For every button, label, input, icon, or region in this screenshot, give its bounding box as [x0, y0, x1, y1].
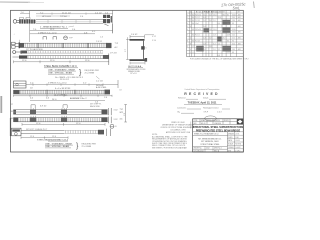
- svg-text:TYPE: TYPE: [193, 120, 197, 122]
- svg-text:448: 448: [227, 35, 230, 37]
- svg-text:R.M.: R.M.: [235, 137, 239, 139]
- svg-text:2'-6 1/2: 2'-6 1/2: [96, 41, 102, 43]
- svg-text:DATE: DATE: [228, 139, 232, 142]
- svg-text:24'-0: 24'-0: [52, 99, 57, 101]
- dim row below beam 7: [22, 123, 105, 126]
- svg-text:5/8: 5/8: [209, 29, 211, 31]
- left margin tiny marks: [11, 104, 13, 120]
- svg-text:25'-0 SPAN: 25'-0 SPAN: [85, 71, 95, 74]
- svg-text:3 1/2: 3 1/2: [114, 110, 118, 112]
- svg-text:88: 88: [232, 52, 234, 54]
- svg-text:122: 122: [227, 52, 230, 54]
- beam 5 ribbed band: [14, 90, 111, 95]
- section flags right of beam 6: [109, 108, 112, 123]
- svg-text:21'-11 1/2: 21'-11 1/2: [62, 12, 72, 14]
- dim line to right: [26, 84, 118, 86]
- svg-text:LENGTH: LENGTH: [218, 11, 225, 13]
- svg-text:25-0: 25-0: [208, 120, 211, 122]
- svg-text:1'-6: 1'-6: [104, 97, 107, 99]
- svg-text:1'-8: 1'-8: [213, 35, 216, 37]
- svg-text:4: 4: [190, 26, 191, 28]
- svg-text:3322: 3322: [232, 32, 236, 34]
- beam 7 ribbed: [14, 116, 108, 122]
- svg-text:8: 8: [190, 43, 191, 45]
- svg-text:A36: A36: [238, 13, 241, 16]
- svg-text:1/2: 1/2: [209, 14, 211, 16]
- svg-text:L4x4: L4x4: [195, 23, 199, 25]
- svg-text:2'-4 1/2: 2'-4 1/2: [95, 12, 102, 14]
- svg-text:lbs: lbs: [227, 14, 229, 16]
- svg-text:6: 6: [146, 48, 147, 50]
- svg-text:TYP: TYP: [69, 37, 73, 39]
- svg-text:A36: A36: [238, 42, 241, 45]
- svg-text:2-0: 2-0: [203, 20, 205, 22]
- svg-text:11'-2: 11'-2: [50, 29, 55, 31]
- svg-text:TUESDAY, April 12, 2011: TUESDAY, April 12, 2011: [188, 101, 217, 104]
- svg-text:16: 16: [11, 118, 13, 120]
- svg-text:1'-4: 1'-4: [80, 16, 84, 18]
- svg-text:17: 17: [11, 104, 13, 106]
- svg-text:STRUCTURAL STEEL: STRUCTURAL STEEL: [200, 143, 219, 146]
- beam 1 elevation: [13, 12, 112, 25]
- svg-text:EACH SIDE: EACH SIDE: [90, 105, 100, 108]
- stirrup symbols: [31, 105, 67, 108]
- svg-text:J.E.K.: J.E.K.: [235, 133, 240, 135]
- scattered tiny cell text: [187, 11, 241, 57]
- left margin smudge: [0, 96, 2, 113]
- svg-text:21-6: 21-6: [203, 14, 206, 16]
- svg-text:1'-4: 1'-4: [72, 29, 76, 31]
- svg-text:9: 9: [187, 46, 188, 48]
- top thin rows: [193, 121, 244, 123]
- svg-text:3 1/4: 3 1/4: [152, 40, 156, 42]
- svg-text:STEEL BEAM ASSEMBLY 24'-6: STEEL BEAM ASSEMBLY 24'-6: [44, 65, 77, 68]
- logo square: [237, 119, 244, 125]
- svg-text:A36: A36: [238, 37, 241, 40]
- svg-text:8-4: 8-4: [203, 17, 205, 19]
- svg-text:MT. VERNON, OHIO: MT. VERNON, OHIO: [201, 141, 219, 143]
- svg-text:FOR QUESTIONS ABOUT THE BILL O: FOR QUESTIONS ABOUT THE BILL OF MATERIAL…: [190, 58, 248, 61]
- svg-text:S-4412: S-4412: [235, 147, 240, 149]
- svg-text:PL 1/2: PL 1/2: [195, 35, 200, 37]
- svg-text:23'-10 1/2: 23'-10 1/2: [60, 79, 70, 81]
- svg-text:W21x55: W21x55: [195, 29, 201, 31]
- svg-text:APPROVED FOR SHOP USE: APPROVED FOR SHOP USE: [166, 131, 191, 134]
- svg-text:6: 6: [187, 29, 188, 31]
- svg-text:4'-0: 4'-0: [30, 98, 33, 100]
- svg-text:212: 212: [232, 38, 235, 40]
- svg-text:3/8: 3/8: [209, 46, 211, 48]
- svg-text:12-6: 12-6: [218, 17, 221, 19]
- svg-text:ASSEMBLY No. 2: ASSEMBLY No. 2: [70, 97, 87, 100]
- svg-text:x55: x55: [120, 119, 123, 121]
- svg-text:LOADING: LOADING: [214, 122, 222, 125]
- svg-text:2-4: 2-4: [218, 43, 220, 45]
- svg-text:24'-6: 24'-6: [213, 29, 217, 31]
- svg-text:6-0: 6-0: [218, 23, 220, 25]
- svg-text:2'-0: 2'-0: [30, 83, 34, 85]
- beam 8 body: [21, 129, 111, 136]
- svg-text:310: 310: [232, 43, 235, 45]
- svg-text:3510: 3510: [232, 29, 236, 31]
- svg-text:3-6: 3-6: [203, 26, 205, 28]
- beam 3 thin plan: [13, 48, 117, 54]
- svg-text:102: 102: [232, 35, 235, 37]
- svg-text:3/4: 3/4: [209, 20, 211, 22]
- svg-text:}: }: [79, 70, 82, 77]
- svg-text:HP 12x53: HP 12x53: [42, 16, 52, 18]
- svg-text:A36: A36: [238, 25, 241, 28]
- svg-text:A36: A36: [238, 48, 241, 51]
- svg-text:1'-0 1/2: 1'-0 1/2: [131, 34, 137, 36]
- beam 8 left end detail: [12, 128, 22, 136]
- dim row 3 (below group A beams): [14, 60, 109, 63]
- svg-text:5 SPA @ 4'-0 = 20'-0: 5 SPA @ 4'-0 = 20'-0: [48, 82, 67, 85]
- svg-text:HS-20: HS-20: [201, 123, 206, 125]
- small marks left of table: [152, 36, 156, 42]
- beam 4 band: [13, 54, 110, 66]
- svg-text:4: 4: [187, 23, 188, 25]
- svg-text:By: By: [178, 112, 180, 114]
- svg-text:MT. VERNON BRIDGE CO.: MT. VERNON BRIDGE CO.: [198, 138, 222, 140]
- svg-text:3-9-11: 3-9-11: [235, 140, 240, 142]
- svg-text:RECEIVED: RECEIVED: [184, 92, 220, 96]
- svg-text:186: 186: [232, 20, 235, 22]
- svg-text:6 x 6 x 3/8 STIFF: 6 x 6 x 3/8 STIFF: [55, 88, 71, 90]
- svg-text:ORDER No.: ORDER No.: [193, 148, 202, 150]
- svg-text:A36: A36: [238, 16, 241, 19]
- dim under beam 8: [21, 136, 68, 138]
- svg-text:B: B: [115, 126, 117, 128]
- svg-text:2'-0: 2'-0: [83, 83, 87, 85]
- dark entry patches: [196, 20, 231, 52]
- right small rows: [226, 132, 228, 152]
- svg-text:12-6: 12-6: [218, 32, 221, 34]
- svg-text:A36: A36: [238, 19, 241, 22]
- dim row 2: [29, 24, 31, 42]
- svg-text:7: 7: [187, 35, 188, 37]
- svg-text:240: 240: [232, 17, 235, 19]
- svg-text:2: 2: [190, 38, 191, 40]
- svg-text:Referred: Referred: [178, 97, 185, 100]
- horizontals: [187, 13, 244, 54]
- svg-text:24'-0: 24'-0: [213, 14, 217, 16]
- svg-text:5 SPA @ 4'-6 = 22'-6: 5 SPA @ 4'-6 = 22'-6: [38, 31, 57, 34]
- svg-text:PL 1/2: PL 1/2: [195, 17, 200, 19]
- svg-text:212: 212: [223, 38, 226, 40]
- svg-text:OP-F: OP-F: [204, 112, 209, 114]
- svg-text:24'-0 OVERALL: 24'-0 OVERALL: [54, 93, 67, 96]
- svg-text:96: 96: [227, 23, 229, 25]
- svg-text:3'-2: 3'-2: [92, 31, 96, 33]
- svg-text:Initials: Initials: [203, 97, 208, 100]
- stud symbols + section bubble: [43, 37, 57, 40]
- caption block group B: [30, 136, 56, 138]
- svg-text:5: 5: [187, 26, 188, 28]
- svg-text:TYP: TYP: [115, 43, 119, 45]
- svg-text:2: 2: [190, 20, 191, 22]
- svg-text:0-8: 0-8: [218, 55, 220, 57]
- svg-text:2: 2: [190, 32, 191, 34]
- left vertical dim: [127, 37, 129, 59]
- svg-text:1-8: 1-8: [203, 38, 205, 40]
- svg-text:SHT: SHT: [228, 150, 231, 152]
- svg-text:1/2" PL EACH SIDE: 1/2" PL EACH SIDE: [26, 48, 44, 51]
- web: [142, 41, 144, 60]
- svg-text:1 OF 2: 1 OF 2: [235, 150, 240, 152]
- svg-text:1-2: 1-2: [218, 49, 220, 51]
- svg-text:DRAWN: DRAWN: [228, 132, 235, 135]
- svg-text:United States Department of Tr: United States Department of Transportati…: [185, 88, 220, 91]
- svg-text:ORDER: ORDER: [228, 147, 235, 149]
- svg-text:SKEW 0: SKEW 0: [214, 120, 220, 122]
- svg-text:2'-0: 2'-0: [213, 20, 216, 22]
- svg-text:6'-9 1/2: 6'-9 1/2: [40, 105, 46, 107]
- svg-text:Huntington District: Huntington District: [203, 106, 219, 109]
- svg-text:3442: 3442: [232, 14, 236, 16]
- svg-text:CUY-480-0552: CUY-480-0552: [193, 150, 204, 152]
- svg-text:2: 2: [190, 14, 191, 16]
- right end bolted cluster: [103, 15, 112, 23]
- svg-text:C2: C2: [192, 52, 194, 54]
- svg-text:W21: W21: [120, 112, 124, 114]
- svg-text:25'-0 SPAN: 25'-0 SPAN: [82, 145, 92, 148]
- svg-text:86: 86: [227, 40, 229, 42]
- svg-text:2 PL 3/8: 2 PL 3/8: [110, 52, 117, 54]
- svg-text:88: 88: [232, 23, 234, 25]
- dim row above beam 6: [30, 100, 105, 102]
- svg-text:2'-0: 2'-0: [213, 49, 216, 51]
- svg-text:TYP: TYP: [120, 109, 124, 111]
- svg-text:DWG No. 1: DWG No. 1: [214, 148, 222, 150]
- svg-text:1 of 2: 1 of 2: [217, 112, 222, 114]
- svg-text:No: No: [190, 11, 192, 13]
- right vertical dim: [125, 105, 127, 123]
- beam 6 plan with splices: [14, 108, 108, 115]
- svg-text:SEE SHEET 2 FOR ERECTION DIAGR: SEE SHEET 2 FOR ERECTION DIAGRAM: [152, 146, 187, 149]
- svg-text:2: 2: [190, 52, 191, 54]
- dim under beam 5: [14, 95, 113, 97]
- svg-text:5mL: 5mL: [233, 5, 241, 10]
- svg-text:1'-2 1/4: 1'-2 1/4: [96, 80, 103, 82]
- svg-text:DES: DES: [193, 123, 196, 125]
- svg-text:L8: L8: [120, 89, 122, 91]
- left end detail box: [14, 81, 27, 88]
- handwritten note top right: [221, 1, 246, 10]
- scan artifact gray line top-left: [0, 1, 30, 3]
- svg-text:12'-6: 12'-6: [52, 136, 56, 138]
- pen mark right edge: [253, 2, 256, 9]
- svg-text:A36: A36: [238, 31, 241, 34]
- svg-text:Comments: Comments: [177, 106, 186, 109]
- left big cell: [198, 138, 222, 146]
- svg-text:1/2: 1/2: [209, 38, 211, 40]
- svg-text:C1: C1: [192, 46, 194, 48]
- svg-text:12'-6: 12'-6: [30, 136, 34, 138]
- svg-text:1: 1: [187, 14, 188, 16]
- svg-text:2'-0: 2'-0: [124, 113, 126, 116]
- top flange: [130, 39, 145, 41]
- svg-text:PL 3/4: PL 3/4: [195, 20, 200, 22]
- svg-text:2-0: 2-0: [203, 49, 205, 51]
- svg-text:PL 5/8: PL 5/8: [195, 40, 200, 42]
- svg-text:4'-0: 4'-0: [46, 98, 49, 100]
- svg-text:2'-0: 2'-0: [105, 12, 108, 14]
- svg-text:STRUCTURAL STEEL SUPERSTRUCTUR: STRUCTURAL STEEL SUPERSTRUCTURE: [193, 126, 244, 129]
- svg-text:3 1/2: 3 1/2: [114, 119, 118, 121]
- svg-text:B I L L O F M A T E R I A: B I L L O F M A T E R I A L: [196, 10, 218, 13]
- svg-text:1/2: 1/2: [30, 88, 34, 90]
- svg-text:+: +: [14, 33, 16, 35]
- svg-text:SCALE: SCALE: [228, 143, 233, 146]
- svg-text:4: 4: [190, 49, 191, 51]
- beam 2 ribbed band: [12, 40, 119, 49]
- svg-text:L4x4: L4x4: [195, 49, 199, 51]
- svg-text:0-9: 0-9: [203, 43, 205, 45]
- svg-text:3: 3: [187, 20, 188, 22]
- svg-text:4 1/2: 4 1/2: [152, 36, 156, 38]
- bottom dim: [130, 62, 145, 64]
- svg-text:TYP A1: TYP A1: [60, 15, 68, 18]
- svg-text:WT: WT: [238, 11, 241, 13]
- svg-text:1'-3: 1'-3: [100, 37, 103, 39]
- svg-text:8: 8: [187, 40, 188, 42]
- dim row 1 above beam 1: [20, 10, 113, 33]
- svg-text:1'-7: 1'-7: [125, 49, 127, 52]
- dim texts above: [30, 79, 103, 90]
- svg-text:16: 16: [11, 111, 13, 113]
- svg-text:NOTED: NOTED: [235, 144, 241, 146]
- svg-text:SPAN 25'-0 ROADWAY 24'-0: SPAN 25'-0 ROADWAY 24'-0: [194, 133, 218, 136]
- svg-text:864: 864: [223, 14, 226, 16]
- svg-text:2: 2: [187, 17, 188, 19]
- svg-text:24-0: 24-0: [203, 32, 206, 34]
- svg-text:W21x55: W21x55: [195, 14, 201, 16]
- svg-text:3'-2: 3'-2: [213, 43, 216, 45]
- svg-text:A-36 STEEL: A-36 STEEL: [96, 86, 107, 89]
- svg-text:96: 96: [232, 40, 234, 42]
- svg-text:1/2"=1'-0: 1/2"=1'-0: [130, 73, 137, 75]
- svg-text:7'-6: 7'-6: [33, 29, 37, 31]
- svg-text:A-2: A-2: [115, 46, 118, 49]
- svg-text:4412: 4412: [206, 148, 210, 150]
- bottom flange: [130, 59, 145, 61]
- svg-text:160: 160: [232, 49, 235, 51]
- svg-text:}: }: [76, 143, 79, 150]
- section bubble symbol: [110, 124, 114, 128]
- sheet border: [11, 10, 244, 152]
- verticals: [189, 10, 236, 56]
